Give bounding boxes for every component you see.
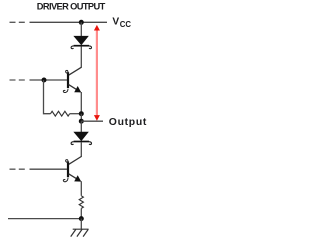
wire output stub: [81, 120, 103, 122]
svg-text:CC: CC: [120, 20, 132, 29]
svg-text:V: V: [112, 17, 119, 28]
wire Q2 base dashed lead: [10, 168, 26, 170]
wire Q1 emitter to node: [80, 92, 82, 114]
node R1 emitter junction: [79, 111, 84, 116]
ground: [71, 219, 89, 237]
node Q1 base junction: [42, 78, 47, 83]
transistor Q1: [63, 67, 81, 92]
node Vcc junction: [79, 20, 84, 25]
diode D2 schottky: [71, 132, 91, 145]
wire Q2 emitter down: [80, 181, 82, 196]
red arrowhead up: [94, 25, 100, 31]
red voltage arrow line: [96, 29, 98, 118]
diode D1 schottky: [71, 36, 91, 49]
transistor Q2: [63, 157, 81, 182]
resistor R2: [79, 196, 83, 209]
wire R1 to node: [70, 113, 82, 115]
wire R2 to ground node: [80, 208, 82, 218]
wire Vcc rail dashed lead: [10, 21, 26, 23]
svg-text:DRIVER OUTPUT: DRIVER OUTPUT: [37, 1, 106, 11]
resistor R1: [51, 111, 70, 116]
wire Vcc rail: [30, 21, 108, 23]
red arrowhead down: [94, 115, 100, 121]
wire Q2 base: [30, 168, 68, 170]
wire Q1 base dashed lead: [10, 79, 26, 81]
wire between junctions: [80, 114, 82, 122]
wire Q1 base: [30, 79, 68, 81]
node ground junction: [79, 216, 84, 221]
wire output node to diode D2: [80, 121, 82, 132]
wire diode D1 to Q1 collector: [80, 46, 82, 67]
wire from Vcc node to diode D1: [80, 22, 82, 36]
wire diode D2 to Q2 collector: [80, 142, 82, 157]
wire base node down to R1: [44, 80, 51, 114]
svg-text:Output: Output: [109, 117, 147, 128]
node output junction: [79, 119, 84, 124]
wire ground rail: [8, 218, 81, 220]
